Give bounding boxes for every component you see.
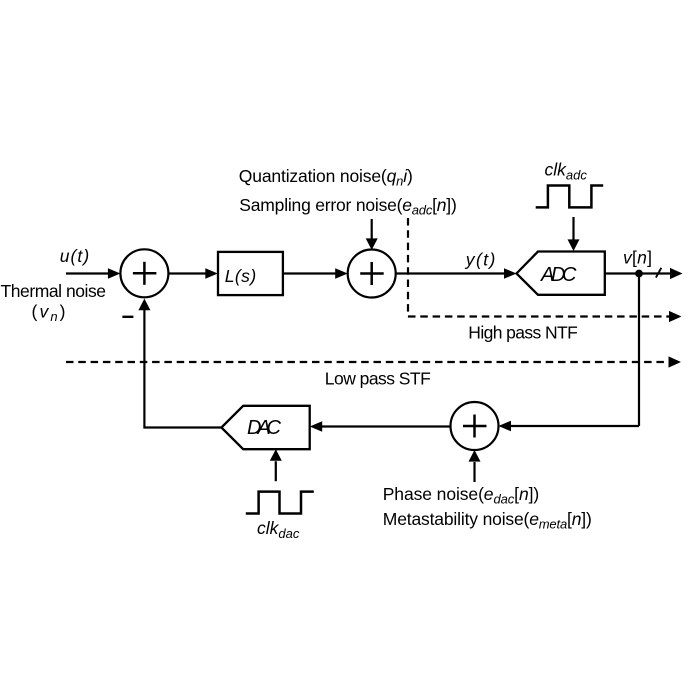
clock waveform clk_adc [536, 186, 604, 208]
wire: clk_dac to DAC [275, 461, 277, 481]
minus sign at S1 feedback input [122, 316, 133, 318]
svg-text:y(t): y(t) [465, 249, 496, 269]
wire: ADC output v[n] [605, 272, 670, 274]
wire: S2 to ADC [396, 272, 505, 274]
summer S1 [120, 249, 168, 297]
svg-text:Sampling error noise(eadc[n]): Sampling error noise(eadc[n]) [239, 195, 456, 218]
block DAC [221, 406, 309, 449]
svg-text:High pass NTF: High pass NTF [468, 323, 578, 343]
dashed NTF path: vertical segment [407, 218, 409, 317]
single-bit slash on output wire [656, 268, 661, 278]
wire: S1 to L(s) [168, 272, 205, 274]
svg-text:clkadc: clkadc [545, 160, 588, 183]
dashed STF path with arrow [66, 361, 669, 363]
svg-text:Quantization noise(qni): Quantization noise(qni) [239, 166, 413, 189]
svg-text:u(t): u(t) [60, 246, 89, 266]
svg-text:Phase noise(edac[n]): Phase noise(edac[n]) [383, 484, 540, 507]
wire: input u(t) into summer S1 [66, 272, 108, 274]
clock waveform clk_dac [246, 492, 314, 514]
svg-text:DAC: DAC [247, 417, 282, 439]
wire: S3 to DAC [322, 425, 451, 427]
svg-text:v[n]: v[n] [623, 248, 652, 268]
summer S2 [348, 250, 396, 298]
summer S3 [451, 402, 499, 450]
svg-text:L(s): L(s) [225, 266, 257, 286]
block ADC [517, 252, 605, 295]
block L(s) [218, 252, 283, 295]
svg-text:Thermal noise: Thermal noise [1, 281, 107, 301]
wire: L(s) to S2 [283, 272, 336, 274]
svg-text:Metastability noise(emeta[n]): Metastability noise(emeta[n]) [383, 509, 592, 532]
svg-text:ADC: ADC [540, 264, 577, 286]
wire: DAC output to S1 (feedback left leg) [144, 309, 221, 427]
dashed NTF path: horizontal segment with arrow [408, 315, 669, 317]
svg-text:(vn): (vn) [32, 302, 66, 324]
wire: feedback into summer S3 [511, 425, 640, 427]
node: output junction dot [635, 270, 643, 278]
svg-text:Low pass STF: Low pass STF [325, 368, 431, 388]
wire: clk_adc to ADC [572, 217, 574, 240]
svg-text:clkdac: clkdac [257, 518, 300, 541]
wire: feedback from v[n] node down [638, 274, 640, 427]
wire: noise injection into summer S2 [371, 219, 373, 239]
wire: noise arrow into S3 [473, 462, 475, 482]
